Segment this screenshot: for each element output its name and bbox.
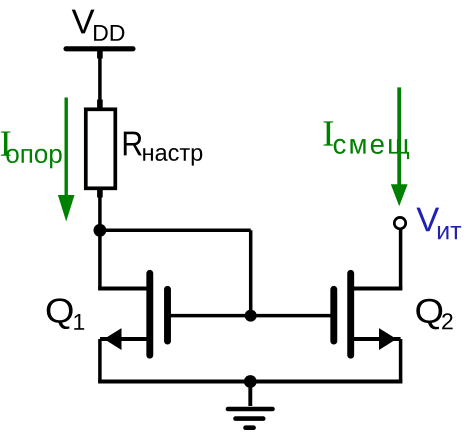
wire down to gate junction [249,230,253,315]
label Ismesh [324,121,410,159]
label Q1 [47,298,84,329]
ground [228,382,273,428]
wire resistor to node A [97,189,103,231]
power rail VDD [66,46,133,51]
transistor Q2 [334,273,403,355]
wire Q1 gate to junction [168,314,251,318]
wire bottom rail [98,380,402,384]
wire node A to gate column [100,229,251,233]
wire VDD rail to resistor [97,50,103,109]
label Vit [416,208,461,240]
resistor Rnastr body [86,109,116,188]
wire junction to Q2 gate [251,314,334,318]
terminal Vit open circle [394,217,405,228]
node ground junction dot [244,375,257,388]
wire Q2 drain up to terminal [399,230,403,289]
current arrow Iopor [58,98,75,222]
label Iopor [1,131,62,168]
transistor Q1 [98,273,167,355]
node gate junction dot [245,310,257,322]
label VDD [72,10,125,41]
current arrow Ismesh [391,87,408,206]
wire Q2 source down [399,339,403,382]
label Q2 [416,299,452,330]
label Rnastr [124,132,202,166]
wire node A to Q1 drain [98,228,102,289]
wire Q1 source down [98,339,102,382]
node A junction dot [94,224,107,237]
